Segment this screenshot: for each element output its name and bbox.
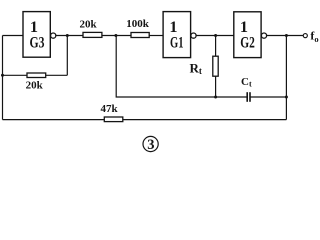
wire 100k to G1 input	[149, 35, 163, 37]
wire feedback riser at node A	[66, 36, 68, 76]
capacitor Ct plate right	[249, 92, 251, 102]
svg-text:100k: 100k	[126, 18, 150, 30]
wire feedback right segment	[46, 74, 68, 76]
node junction Rt bottom on capacitor line	[214, 96, 217, 99]
svg-text:20k: 20k	[26, 80, 44, 92]
wire G2 output to terminal	[267, 35, 304, 37]
inverter G1 output bubble	[191, 33, 196, 38]
wire Rt top lead	[215, 36, 217, 57]
wire left bus vertical	[2, 36, 4, 120]
svg-text:47k: 47k	[100, 103, 118, 115]
wire capacitor to right bus	[251, 96, 287, 98]
node junction G3 output	[66, 34, 69, 37]
inverter G1	[163, 12, 191, 58]
node junction between 20k and 100k	[114, 34, 117, 37]
wire bottom right segment	[123, 119, 287, 121]
resistor 20k top body	[83, 32, 102, 37]
wire G3 input	[3, 35, 24, 37]
wire Rt bottom lead	[215, 76, 217, 97]
inverter G3	[23, 12, 50, 58]
resistor 47k body	[104, 117, 123, 122]
inverter G2	[234, 12, 261, 58]
inverter G3 output bubble	[51, 33, 56, 38]
wire bottom left segment	[3, 119, 105, 121]
resistor Rt body (vertical)	[213, 56, 218, 76]
inverter G2 output bubble	[261, 33, 266, 38]
svg-text:20k: 20k	[79, 18, 97, 30]
svg-text:3: 3	[147, 137, 154, 153]
wire right bus vertical	[285, 36, 287, 120]
capacitor Ct plate left	[246, 92, 248, 102]
wire riser node B to capacitor line	[116, 36, 246, 98]
wire G1 output to G2 input	[196, 35, 234, 37]
svg-text:G3: G3	[30, 33, 45, 52]
node output terminal circle	[303, 34, 307, 38]
svg-text:G1: G1	[170, 33, 184, 52]
svg-text:Ct: Ct	[241, 76, 252, 89]
node junction G1 output	[214, 34, 217, 37]
wire G3 output to 20k	[56, 35, 83, 37]
svg-text:Rt: Rt	[190, 61, 202, 77]
svg-text:fo: fo	[310, 29, 318, 45]
node junction output bus top	[285, 34, 288, 37]
figure number 3 circled	[143, 136, 158, 153]
wire feedback left segment	[3, 74, 28, 76]
svg-text:G2: G2	[240, 33, 255, 52]
node junction feedback on left bus	[1, 74, 4, 77]
resistor 20k feedback body	[27, 73, 46, 78]
resistor 100k body	[131, 33, 149, 38]
node junction capacitor line right	[285, 96, 288, 99]
wire 20k to 100k	[102, 35, 131, 37]
